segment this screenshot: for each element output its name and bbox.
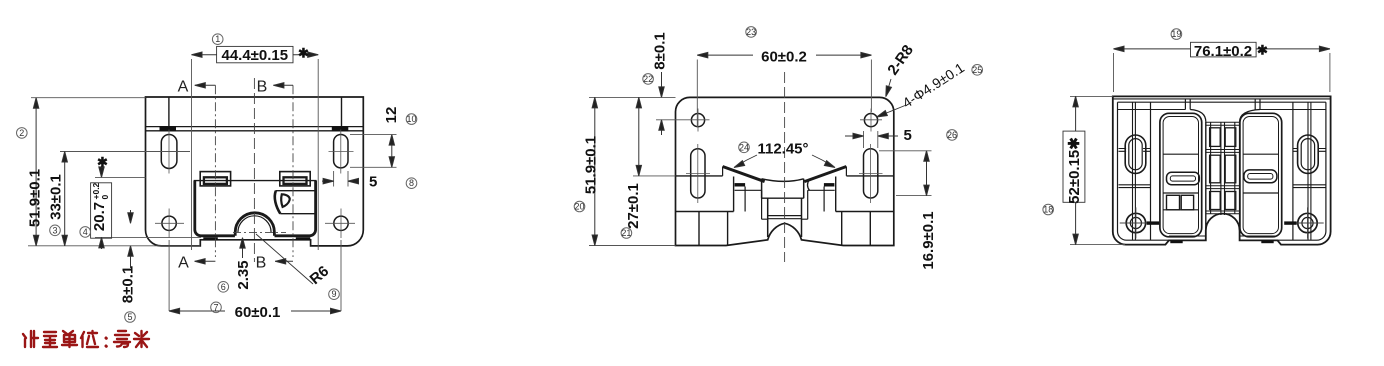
dim 12 line bbox=[391, 135, 393, 168]
dim 44.4 line and box bbox=[192, 54, 319, 56]
ladder rung B2 bbox=[1225, 155, 1236, 183]
inner bottom middle lines bbox=[1169, 235, 1278, 237]
dim 5 mid arrows bbox=[845, 135, 898, 137]
middle right hole bbox=[864, 114, 877, 127]
step lines 27 ref bbox=[676, 175, 894, 177]
small arc detail bbox=[808, 180, 810, 191]
dim 52 extensions bbox=[1070, 96, 1125, 244]
char dan bbox=[62, 331, 77, 347]
dim 33 line bbox=[64, 152, 66, 246]
right oval ring inner bbox=[1301, 139, 1314, 170]
left grid vertical rib pair bbox=[1133, 102, 1136, 240]
svg-text:18: 18 bbox=[1043, 205, 1053, 215]
svg-text:4: 4 bbox=[83, 227, 88, 237]
circle 22 bbox=[643, 74, 654, 85]
dim 27 extension bbox=[633, 175, 676, 177]
circle 7 bbox=[211, 302, 222, 313]
right slot (stadium) bbox=[334, 135, 348, 168]
center box top line bbox=[194, 180, 317, 182]
char mi bbox=[134, 331, 149, 347]
circle 20 bbox=[574, 201, 585, 212]
middle hole crosshairs bbox=[656, 109, 882, 132]
saddle curves bbox=[1190, 110, 1260, 122]
svg-text:0: 0 bbox=[100, 195, 110, 200]
cup saddle arc bbox=[762, 179, 804, 182]
dim 16.9 extensions bbox=[879, 151, 932, 196]
svg-text:2-R8: 2-R8 bbox=[884, 42, 917, 78]
left hole bbox=[162, 216, 176, 230]
arch horizontal centerline bbox=[233, 231, 286, 233]
wall tip ticks bbox=[723, 167, 847, 176]
svg-text:44.4±0.15: 44.4±0.15 bbox=[221, 47, 288, 64]
circle 19 bbox=[1171, 29, 1182, 40]
char wei bbox=[81, 331, 98, 347]
flag fin bbox=[281, 194, 289, 207]
left boss thick bar bbox=[1147, 221, 1160, 224]
left inner vertical bbox=[1150, 102, 1152, 240]
svg-text:10: 10 bbox=[406, 114, 416, 124]
dim 20.7 extensions bbox=[95, 177, 201, 237]
dim 51.9 mid line bbox=[594, 97, 596, 245]
ladder center pair bbox=[1221, 122, 1225, 215]
section arrow A top bbox=[195, 84, 216, 86]
svg-text:52±0.15✱: 52±0.15✱ bbox=[1066, 137, 1083, 204]
flag detail top/bottom bbox=[275, 191, 315, 214]
ladder inner rails bbox=[1211, 122, 1235, 214]
svg-text:R6: R6 bbox=[307, 263, 333, 288]
dim 60 mid line bbox=[697, 54, 871, 56]
fullwidth colon bbox=[105, 338, 108, 346]
left tab outer bbox=[200, 172, 230, 186]
middle vertical centerline bbox=[784, 72, 786, 262]
left view top inner verticals bbox=[169, 97, 342, 127]
cup side walls bbox=[762, 179, 804, 198]
svg-text:5: 5 bbox=[369, 174, 377, 191]
svg-text:23: 23 bbox=[746, 27, 756, 37]
right view inner outline left bbox=[1117, 102, 1168, 240]
svg-text:16.9±0.1: 16.9±0.1 bbox=[920, 211, 937, 269]
svg-text:✱: ✱ bbox=[1257, 43, 1268, 58]
red unit note bbox=[23, 331, 149, 347]
hole crosshairs bbox=[155, 209, 355, 239]
svg-text:2.35: 2.35 bbox=[235, 260, 252, 289]
section line A bbox=[214, 85, 216, 257]
svg-text:8±0.1: 8±0.1 bbox=[652, 32, 669, 69]
left panel slot bbox=[1167, 172, 1200, 184]
middle right slot bbox=[864, 149, 878, 198]
circle 24 bbox=[739, 142, 750, 153]
middle view outline bbox=[676, 97, 894, 245]
dim 27 line bbox=[638, 97, 640, 175]
left panel outer bbox=[1160, 113, 1202, 237]
circle 2 bbox=[17, 128, 28, 139]
dim 5 extensions bbox=[334, 171, 348, 187]
svg-text:51.9±0.1: 51.9±0.1 bbox=[27, 169, 44, 227]
svg-text:8±0.1: 8±0.1 bbox=[120, 266, 137, 303]
flag left curved edge bbox=[275, 191, 281, 214]
right grid vertical rib pair bbox=[1308, 102, 1311, 240]
left circle boss bbox=[1126, 213, 1145, 232]
leader 2-R8 bbox=[886, 79, 891, 95]
R6 leader bbox=[256, 234, 313, 284]
svg-text:12: 12 bbox=[383, 107, 400, 124]
left view vertical centerline bbox=[253, 78, 255, 262]
column sides bbox=[768, 198, 802, 237]
svg-text:3: 3 bbox=[52, 225, 57, 235]
left grid horizontal rib pairs bbox=[1119, 149, 1151, 188]
svg-text:21: 21 bbox=[621, 228, 631, 238]
top posts bbox=[1185, 99, 1260, 110]
left panel dividers bbox=[1163, 154, 1198, 210]
right tab inner thick bbox=[284, 177, 307, 184]
right oval ring outer bbox=[1298, 135, 1319, 173]
left steps bbox=[676, 177, 734, 246]
section arrow B top bbox=[273, 84, 293, 86]
svg-text:A: A bbox=[178, 255, 189, 272]
svg-text:33±0.1: 33±0.1 bbox=[48, 174, 65, 220]
svg-text:19: 19 bbox=[1171, 29, 1181, 39]
box feet dark marks bbox=[203, 237, 218, 240]
svg-text:9: 9 bbox=[331, 289, 336, 299]
left band dark segment right bbox=[332, 126, 349, 131]
char liang bbox=[43, 332, 57, 347]
right view outer outline bbox=[1113, 96, 1331, 244]
dim 60 extensions bbox=[169, 240, 341, 311]
section arrow A bottom bbox=[195, 260, 216, 262]
right grid horizontal rib pairs bbox=[1293, 149, 1326, 188]
ladder rung A1 bbox=[1210, 128, 1221, 147]
svg-text:60±0.2: 60±0.2 bbox=[761, 48, 807, 65]
arch outer thick bbox=[235, 213, 274, 236]
svg-text:A: A bbox=[178, 79, 189, 96]
svg-text:22: 22 bbox=[643, 74, 653, 84]
circle 18 bbox=[1043, 204, 1054, 215]
middle left slot bbox=[691, 149, 705, 198]
svg-text:✱: ✱ bbox=[298, 46, 309, 61]
right panel dividers bbox=[1243, 154, 1278, 193]
circle 9 bbox=[329, 289, 340, 300]
left band dark segment left bbox=[160, 126, 177, 131]
svg-text:8: 8 bbox=[409, 178, 414, 188]
circle 6 bbox=[218, 282, 229, 293]
circle 21 bbox=[621, 228, 632, 239]
left boss crosshair bbox=[1120, 207, 1151, 238]
svg-text:51.9±0.1: 51.9±0.1 bbox=[582, 136, 599, 194]
arch inner thin bbox=[238, 216, 271, 233]
middle left hole bbox=[691, 114, 704, 127]
circle 3 bbox=[50, 225, 61, 236]
funnel wall right thick bbox=[804, 167, 846, 182]
svg-text:76.1±0.2: 76.1±0.2 bbox=[1194, 43, 1252, 60]
circle 1 bbox=[212, 34, 223, 45]
circle 25 bbox=[972, 65, 983, 76]
svg-text:60±0.1: 60±0.1 bbox=[235, 304, 281, 321]
left view outline bbox=[146, 97, 364, 246]
dim 2.35 arrow bbox=[242, 238, 244, 258]
dim 8 arrows bbox=[130, 210, 132, 268]
funnel wall left thick bbox=[723, 167, 765, 182]
svg-text:112.45°: 112.45° bbox=[757, 141, 808, 158]
left panel inner bbox=[1163, 117, 1198, 234]
char hao bbox=[114, 331, 130, 347]
left slot (stadium) bbox=[161, 135, 177, 169]
leader 4-dia bbox=[879, 106, 906, 117]
dim 16.9 line bbox=[926, 151, 928, 196]
svg-text:4-Φ4.9±0.1: 4-Φ4.9±0.1 bbox=[899, 59, 967, 111]
svg-text:1: 1 bbox=[215, 34, 220, 44]
right view inner outline right bbox=[1278, 102, 1326, 240]
right panel inner bbox=[1243, 117, 1278, 234]
ladder cross lines bbox=[1206, 122, 1240, 214]
bottom dark tabs bbox=[1170, 240, 1182, 243]
section arrow B bottom bbox=[275, 260, 293, 262]
dim 51.9 line bbox=[35, 98, 37, 246]
ladder rung A2 bbox=[1210, 155, 1221, 183]
column lines bbox=[768, 216, 802, 219]
right circle boss bbox=[1298, 213, 1317, 232]
svg-text:✱: ✱ bbox=[97, 155, 108, 170]
svg-text:5: 5 bbox=[904, 127, 912, 144]
right hole bbox=[334, 216, 348, 230]
dim 52 line and box bbox=[1075, 96, 1077, 244]
right panel slot bbox=[1244, 170, 1277, 183]
band bottom lines bbox=[1118, 109, 1326, 111]
left view horizontal band bbox=[146, 127, 364, 131]
circle 4 bbox=[80, 227, 91, 238]
right boss thick bar bbox=[1284, 221, 1297, 224]
dim 44.4 extension lines bbox=[192, 59, 319, 250]
circle 5 bbox=[125, 312, 136, 323]
svg-text:20.7: 20.7 bbox=[91, 202, 108, 231]
left tab inner thick bbox=[204, 177, 227, 184]
middle slot centerlines bbox=[686, 144, 883, 203]
char ji bbox=[23, 331, 38, 347]
svg-text:27±0.1: 27±0.1 bbox=[625, 183, 642, 229]
svg-text:2: 2 bbox=[19, 128, 24, 138]
dim 60 mid extensions bbox=[697, 60, 871, 128]
svg-text:25: 25 bbox=[972, 65, 982, 75]
angle leaders 112.45 bbox=[736, 155, 834, 167]
slot center lines bbox=[169, 130, 354, 174]
right boss crosshair bbox=[1293, 207, 1324, 238]
ladder outer rails bbox=[1206, 122, 1240, 231]
left step detail bbox=[735, 187, 768, 220]
svg-text:26: 26 bbox=[947, 130, 957, 140]
center box thick U outline bbox=[195, 181, 316, 236]
dim 8 mid arrows bbox=[661, 72, 663, 135]
right step detail bbox=[802, 187, 835, 220]
dim 20.7 box bbox=[91, 183, 112, 238]
ladder rung B3 bbox=[1225, 192, 1236, 210]
dim 33 extension bbox=[60, 151, 190, 153]
svg-text:7: 7 bbox=[213, 302, 218, 312]
dim 5 mid extensions bbox=[864, 131, 878, 148]
svg-text:B: B bbox=[257, 79, 268, 96]
top band lines bbox=[1113, 99, 1331, 102]
left panel tabs bbox=[1167, 195, 1180, 210]
left oval ring outer bbox=[1125, 135, 1146, 173]
svg-text:24: 24 bbox=[739, 142, 749, 152]
cup bottom line bbox=[762, 197, 804, 199]
right steps bbox=[836, 177, 894, 246]
svg-text:20: 20 bbox=[574, 202, 584, 212]
dim 76.1 extensions bbox=[1114, 53, 1330, 92]
dim 60 line bbox=[169, 310, 341, 312]
circle 8 bbox=[406, 178, 417, 189]
section line B bbox=[292, 85, 294, 257]
dim 5 arrows bbox=[322, 180, 356, 182]
wall bars dark bbox=[735, 183, 746, 186]
svg-text:5: 5 bbox=[127, 312, 132, 322]
dim 51.9 mid extensions bbox=[589, 97, 676, 245]
svg-text:B: B bbox=[256, 255, 267, 272]
right inner vertical bbox=[1292, 102, 1294, 240]
circle 10 bbox=[406, 114, 417, 125]
right tab outer bbox=[280, 172, 310, 186]
left oval ring inner bbox=[1129, 139, 1142, 170]
ladder rung A3 bbox=[1210, 192, 1221, 210]
ladder rung B1 bbox=[1225, 128, 1236, 147]
circle 23 bbox=[746, 27, 757, 38]
dim 51.9 extensions bbox=[28, 98, 200, 246]
text 20.7 +0.2/0 bbox=[91, 182, 110, 231]
dim 76.1 line and box bbox=[1114, 48, 1330, 50]
dim 12 extensions bbox=[350, 135, 397, 168]
dim 20.7 arrows bbox=[101, 166, 103, 249]
circle 26 bbox=[947, 130, 958, 141]
right panel outer bbox=[1240, 113, 1282, 237]
svg-text:6: 6 bbox=[221, 282, 226, 292]
